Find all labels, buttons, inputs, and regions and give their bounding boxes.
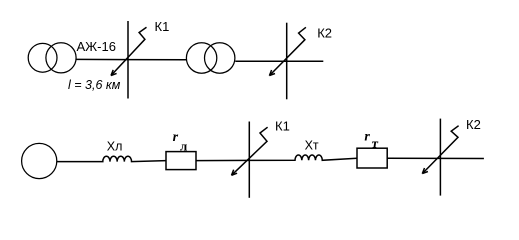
- svg-text:К2: К2: [317, 26, 332, 41]
- svg-text:л: л: [180, 138, 187, 153]
- svg-text:Хл: Хл: [107, 139, 123, 153]
- svg-text:К2: К2: [466, 117, 481, 132]
- svg-text:Хт: Хт: [305, 139, 319, 153]
- svg-text:К1: К1: [275, 119, 290, 134]
- svg-text:АЖ-16: АЖ-16: [77, 39, 116, 54]
- svg-text:l = 3,6 км: l = 3,6 км: [68, 78, 121, 92]
- svg-text:К1: К1: [155, 19, 170, 34]
- svg-text:r: r: [173, 130, 179, 145]
- svg-text:r: r: [364, 129, 370, 144]
